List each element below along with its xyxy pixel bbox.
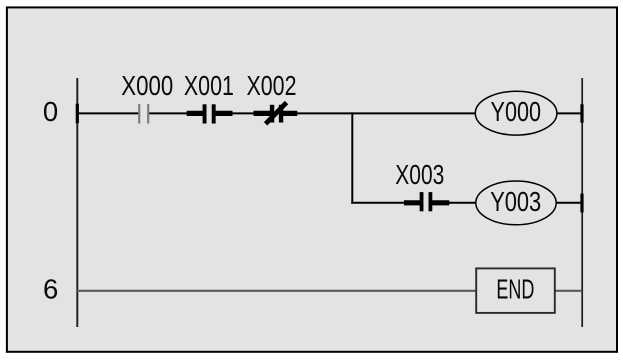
right rail: [581, 78, 583, 327]
node tick right rail branch line: [580, 194, 583, 213]
wire X002 to coil Y000: [281, 112, 476, 114]
node tick right rail rung 0: [580, 104, 583, 122]
svg-text:6: 6: [43, 274, 58, 305]
contact X002 (normally closed, energized bold): [254, 103, 298, 124]
wire coil Y003 to right rail: [556, 202, 582, 204]
contact X001 (normally open, energized bold): [187, 104, 233, 123]
branch wire vertical: [351, 112, 353, 203]
END instruction box: [476, 268, 555, 313]
coil Y000: [475, 91, 557, 135]
wire rung0 rail to X000: [77, 112, 139, 114]
svg-text:X001: X001: [184, 70, 234, 101]
wire coil Y000 to right rail: [557, 112, 582, 114]
svg-text:X003: X003: [395, 159, 444, 190]
svg-text:X002: X002: [247, 70, 297, 101]
wire X003 to coil Y003: [430, 202, 476, 204]
left rail: [76, 78, 78, 327]
svg-text:Y000: Y000: [491, 96, 542, 127]
contact X000 (normally open, off): [139, 104, 148, 124]
svg-text:END: END: [496, 274, 534, 305]
branch wire to X003: [351, 202, 421, 204]
wire X001 to X002: [214, 112, 272, 114]
svg-text:Y003: Y003: [490, 186, 541, 217]
wire X000 to X001: [148, 112, 204, 114]
wire rung6 rail to END box: [77, 290, 476, 292]
contact X003 (normally open, energized bold): [404, 192, 449, 211]
svg-text:X000: X000: [121, 70, 173, 101]
svg-text:0: 0: [43, 96, 58, 127]
node tick left rail rung 0: [76, 104, 79, 124]
wire END box to right rail: [555, 290, 582, 292]
coil Y003: [476, 181, 556, 225]
